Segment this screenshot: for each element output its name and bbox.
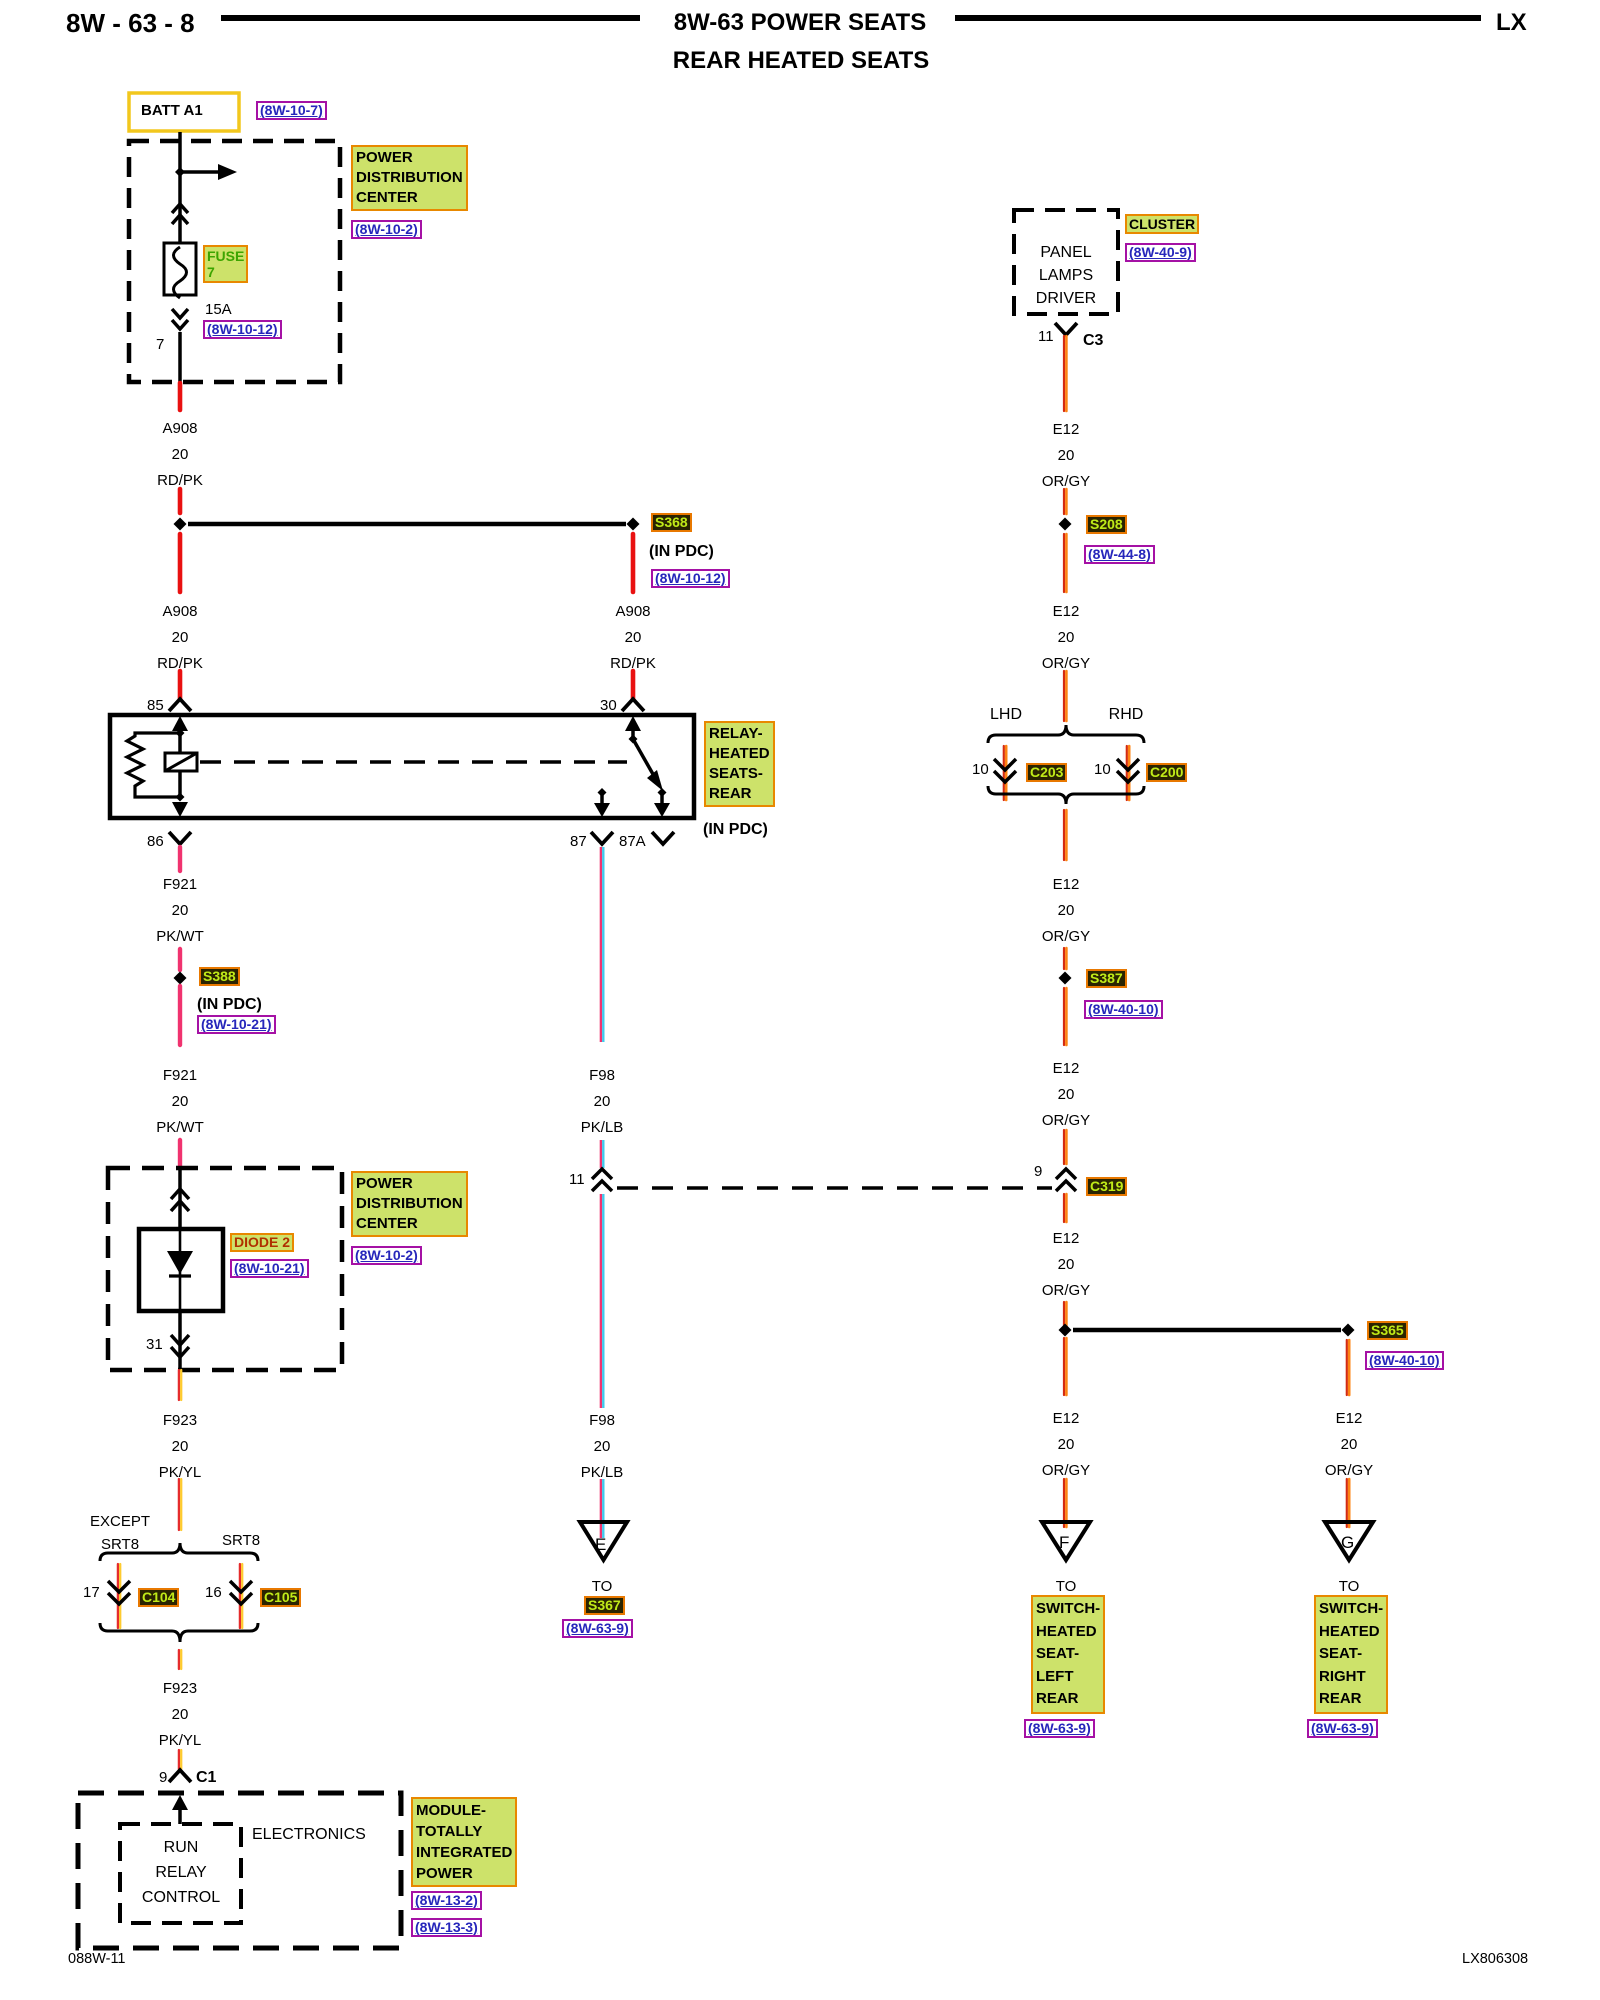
cluster panel lamps driver box (1014, 210, 1118, 314)
battery label BATT A1 (141, 103, 203, 120)
sheet title (674, 9, 926, 37)
sheet subtitle (673, 47, 929, 75)
pin 17 chevrons C104 (108, 1581, 130, 1604)
splice label S367 (584, 1596, 625, 1615)
link 8W-63-9 (F) (1024, 1719, 1095, 1738)
link 8W-10-2 (diode pdc) (351, 1246, 422, 1265)
node E letter (595, 1536, 606, 1555)
platform LX (1496, 9, 1527, 37)
pin 16 (205, 1585, 222, 1602)
relay contact 87 lead (598, 788, 607, 797)
off-page connector G (1325, 1522, 1373, 1560)
arrow feed to other circuits (180, 170, 219, 174)
pin 16 chevrons C105 (230, 1581, 252, 1604)
value 15A (205, 302, 232, 319)
diode 2 box (139, 1229, 223, 1311)
note in pdc (S368) (649, 543, 714, 561)
branch note RHD (1109, 706, 1144, 724)
branch note srt8 (222, 1533, 260, 1550)
note in pdc (S388) (197, 996, 262, 1014)
relay K - heated seats rear box (110, 715, 694, 818)
pin 9 chevron C1 (169, 1770, 191, 1782)
splice label S365 (1367, 1321, 1408, 1340)
branch brace lower (988, 786, 1144, 804)
wire E12 branch C200 (1126, 746, 1128, 800)
pin 87A (619, 834, 646, 851)
link 8W-10-12 (203, 320, 282, 339)
label power distribution center (diode) (351, 1171, 468, 1237)
pin 10 chevrons C203 (994, 759, 1016, 782)
lead into TIPM run relay control (172, 1795, 188, 1810)
footer drawing number (1462, 1952, 1528, 1968)
node F letter (1059, 1534, 1069, 1553)
pin 11 (C3) (1038, 329, 1054, 346)
connector name C1 (196, 1769, 216, 1787)
branch brace upper (except srt8 / srt8) (100, 1543, 258, 1561)
pin 87 (570, 834, 587, 851)
diode element (179, 1229, 182, 1311)
wire F98 PK/LB segment 2 (600, 1140, 602, 1168)
label cluster (1125, 214, 1199, 234)
splice S368 left node (174, 518, 187, 531)
pin 85 (147, 698, 164, 715)
label run relay control (142, 1835, 220, 1910)
link 8W-13-2 (411, 1891, 482, 1910)
wire F921 PK/WT segment 4 (178, 1140, 182, 1168)
note TO (E) (592, 1579, 613, 1596)
link 8W-63-9 (E) (562, 1619, 633, 1638)
power distribution center box (diode) (108, 1168, 342, 1370)
relay coil upper lead with arrow (172, 716, 188, 731)
wire A908 RD/PK segment 4 (right branch) (631, 534, 636, 592)
pin 10 (C200) (1094, 762, 1111, 779)
node junction at battery feed (175, 167, 185, 177)
relay coil element (165, 753, 197, 771)
wire A908 RD/PK into relay pin 30 (631, 671, 636, 699)
wire F923 branch C105 (239, 1564, 241, 1628)
splice S365 left node (1059, 1324, 1072, 1337)
label switch heated seat left rear (1031, 1595, 1105, 1714)
connector chevrons above fuse (172, 204, 188, 224)
label fuse 7 (203, 245, 248, 283)
wire F921 PK/WT segment 1 (178, 847, 182, 871)
wire F923 PK/YL segment 1 (178, 1370, 180, 1400)
splice label S368 (651, 513, 692, 532)
splice S208 node (1059, 518, 1072, 531)
link 8W-13-3 (411, 1918, 482, 1937)
lead out of diode pin 31 (178, 1311, 182, 1370)
wire E12 OR/GY segment 11 (1063, 1338, 1065, 1395)
link 8W-10-21 (S388) (197, 1015, 276, 1034)
connector chevrons below fuse (172, 309, 188, 329)
node G letter (1341, 1534, 1354, 1553)
wire E12 OR/GY segment 8 (1063, 1130, 1065, 1164)
lead into diode (178, 1168, 182, 1229)
label switch heated seat right rear (1314, 1595, 1388, 1714)
wire E12 OR/GY segment 10 (1063, 1302, 1065, 1326)
wire E12 OR/GY segment 1 (1063, 336, 1065, 411)
run relay control inner box (120, 1824, 241, 1923)
relay switch blade (633, 739, 658, 783)
pin 7 (156, 337, 164, 354)
link 8W-40-10 (S387) (1084, 1000, 1163, 1019)
link 8W-10-2 (351, 220, 422, 239)
pin 85 chevron (169, 699, 191, 711)
label power distribution center (top) (351, 145, 468, 211)
wire F921 PK/WT segment 3 (178, 986, 182, 1045)
pin 9 chevrons C319 (1056, 1169, 1076, 1191)
wire E12 OR/GY segment 2 (1063, 489, 1065, 514)
wire label A908 20 RD/PK (3) (610, 599, 656, 677)
splice S368 right node (627, 518, 640, 531)
wire A908 RD/PK segment 1 (178, 383, 183, 410)
wire F98 PK/LB segment 1 (600, 847, 602, 1042)
battery box BATT A1 (129, 93, 239, 131)
wire from battery into PDC (178, 132, 182, 247)
label diode 2 (230, 1233, 294, 1252)
power distribution center box (top) (129, 141, 340, 382)
wire E12 OR/GY segment 12 (1346, 1340, 1348, 1395)
splice S388 node (174, 972, 187, 985)
wire label E12 20 OR/GY (3) (1042, 872, 1090, 950)
wire label F923 20 PK/YL (1) (159, 1408, 202, 1486)
relay common lead pin 30 (625, 716, 641, 731)
relay actuation dashed link (200, 760, 627, 764)
wire E12 OR/GY segment 14 (1346, 1479, 1348, 1527)
link 8W-10-21 (diode) (230, 1259, 309, 1278)
label module totally integrated power (411, 1797, 517, 1887)
pin 31 chevrons (171, 1335, 189, 1357)
relay resistor (parallel) (127, 733, 180, 797)
wire label E12 20 OR/GY (5) (1042, 1226, 1090, 1304)
wire F98 PK/LB segment 4 (600, 1479, 602, 1538)
connector label C203 (1026, 763, 1067, 782)
pin 86 (147, 834, 164, 851)
wire E12 OR/GY segment 13 (1063, 1479, 1065, 1527)
branch brace upper LHD/RHD (988, 725, 1144, 743)
wire F921 PK/WT segment 2 (178, 949, 182, 970)
header rule left (221, 15, 640, 21)
off-page connector E (580, 1522, 627, 1560)
wire label F98 20 PK/LB (1) (581, 1063, 624, 1141)
wire label A908 20 RD/PK (1) (157, 416, 203, 494)
wire A908 RD/PK segment 2 (178, 489, 183, 513)
note in pdc (relay) (703, 821, 768, 839)
connector chevrons above diode (171, 1189, 189, 1211)
splice S387 node (1059, 972, 1072, 985)
relay coil node bottom (176, 793, 185, 802)
wire label F921 20 PK/WT (1) (156, 872, 204, 950)
splice label S387 (1086, 969, 1127, 988)
wire E12 OR/GY segment 4 (1063, 671, 1065, 721)
fuse F7 body (164, 243, 196, 295)
link 8W-10-12 (S368) (651, 569, 730, 588)
splice S368 bus wire (188, 522, 626, 527)
splice label S208 (1086, 515, 1127, 534)
pin 17 (83, 1585, 100, 1602)
pin 87 chevron (591, 832, 613, 844)
wire label F921 20 PK/WT (2) (156, 1063, 204, 1141)
wire F98 PK/LB segment 3 (600, 1194, 602, 1408)
relay coil lower arrow (172, 802, 188, 817)
relay coil node top (176, 729, 185, 738)
pin 87A chevron (652, 832, 674, 844)
note TO (G) (1339, 1579, 1360, 1596)
wire fuse to PDC edge (178, 332, 182, 383)
link 8W-40-9 (1125, 243, 1196, 262)
pin 9 (C319) (1034, 1164, 1042, 1181)
connector name C3 (1083, 332, 1103, 350)
wire F923 PK/YL segment 4 (178, 1750, 180, 1769)
wire E12 OR/GY segment 7 (1063, 988, 1065, 1045)
wire label E12 20 OR/GY (4) (1042, 1056, 1090, 1134)
wire F923 PK/YL segment 3 (178, 1650, 180, 1669)
wire E12 OR/GY segment 6 (1063, 948, 1065, 969)
splice label S388 (199, 967, 240, 986)
pin 31 (146, 1337, 163, 1354)
connector label C105 (260, 1588, 301, 1607)
branch note LHD (990, 706, 1022, 724)
splice S365 right node (1342, 1324, 1355, 1337)
pin 30 chevron (622, 699, 644, 711)
wire A908 RD/PK segment 3 (left) (178, 534, 183, 592)
link 8W-40-10 (S365) (1365, 1351, 1444, 1370)
connector label C104 (138, 1588, 179, 1607)
wire A908 RD/PK into relay pin 85 (178, 671, 183, 699)
wire label E12 20 OR/GY (6) (1042, 1406, 1090, 1484)
wire label E12 20 OR/GY (1) (1042, 417, 1090, 495)
splice S365 bus wire (1073, 1328, 1341, 1333)
relay switch node (629, 735, 638, 744)
wire F923 PK/YL segment 2 (178, 1479, 180, 1530)
link 8W-44-8 (1084, 545, 1155, 564)
wire E12 OR/GY segment 3 (1063, 534, 1065, 592)
off-page connector F (1042, 1522, 1090, 1560)
wire label F923 20 PK/YL (2) (159, 1676, 202, 1754)
wire label E12 20 OR/GY (2) (1042, 599, 1090, 677)
pin 11 chevrons C319 in-line (592, 1169, 612, 1191)
connector label C319 (1086, 1177, 1127, 1196)
pin 11 chevron C3 (1055, 323, 1077, 335)
wire label F98 20 PK/LB (2) (581, 1408, 624, 1486)
dashed interconnect C319 (617, 1186, 1052, 1190)
connector label C200 (1146, 763, 1187, 782)
pin 10 (C203) (972, 762, 989, 779)
pin 30 (600, 698, 617, 715)
header rule right (955, 15, 1481, 21)
wire E12 OR/GY segment 5 (1063, 810, 1065, 860)
label panel lamps driver (1036, 241, 1096, 310)
footer sheet code (68, 1952, 126, 1968)
wire label A908 20 RD/PK (2) (157, 599, 203, 677)
pin 9 (C1) (159, 1770, 167, 1787)
pin 11 (C319 mid) (569, 1172, 585, 1189)
wire label E12 20 OR/GY (7) (1325, 1406, 1373, 1484)
label relay heated seats rear (704, 721, 775, 807)
branch brace lower (100, 1623, 258, 1642)
link 8W-10-7 (256, 101, 327, 120)
wire F923 branch C104 (117, 1564, 119, 1628)
wire E12 OR/GY segment 9 (1063, 1194, 1065, 1222)
note TO (F) (1056, 1579, 1077, 1596)
branch note except srt8 (90, 1510, 150, 1556)
link 8W-63-9 (G) (1307, 1719, 1378, 1738)
page number (66, 8, 195, 39)
relay contact 87A lead (658, 788, 667, 797)
pin 86 chevron (169, 832, 191, 844)
label electronics (252, 1826, 366, 1844)
pin 10 chevrons C200 (1117, 759, 1139, 782)
wire E12 branch C203 (1003, 746, 1005, 800)
TIPM module outer box (78, 1793, 401, 1948)
